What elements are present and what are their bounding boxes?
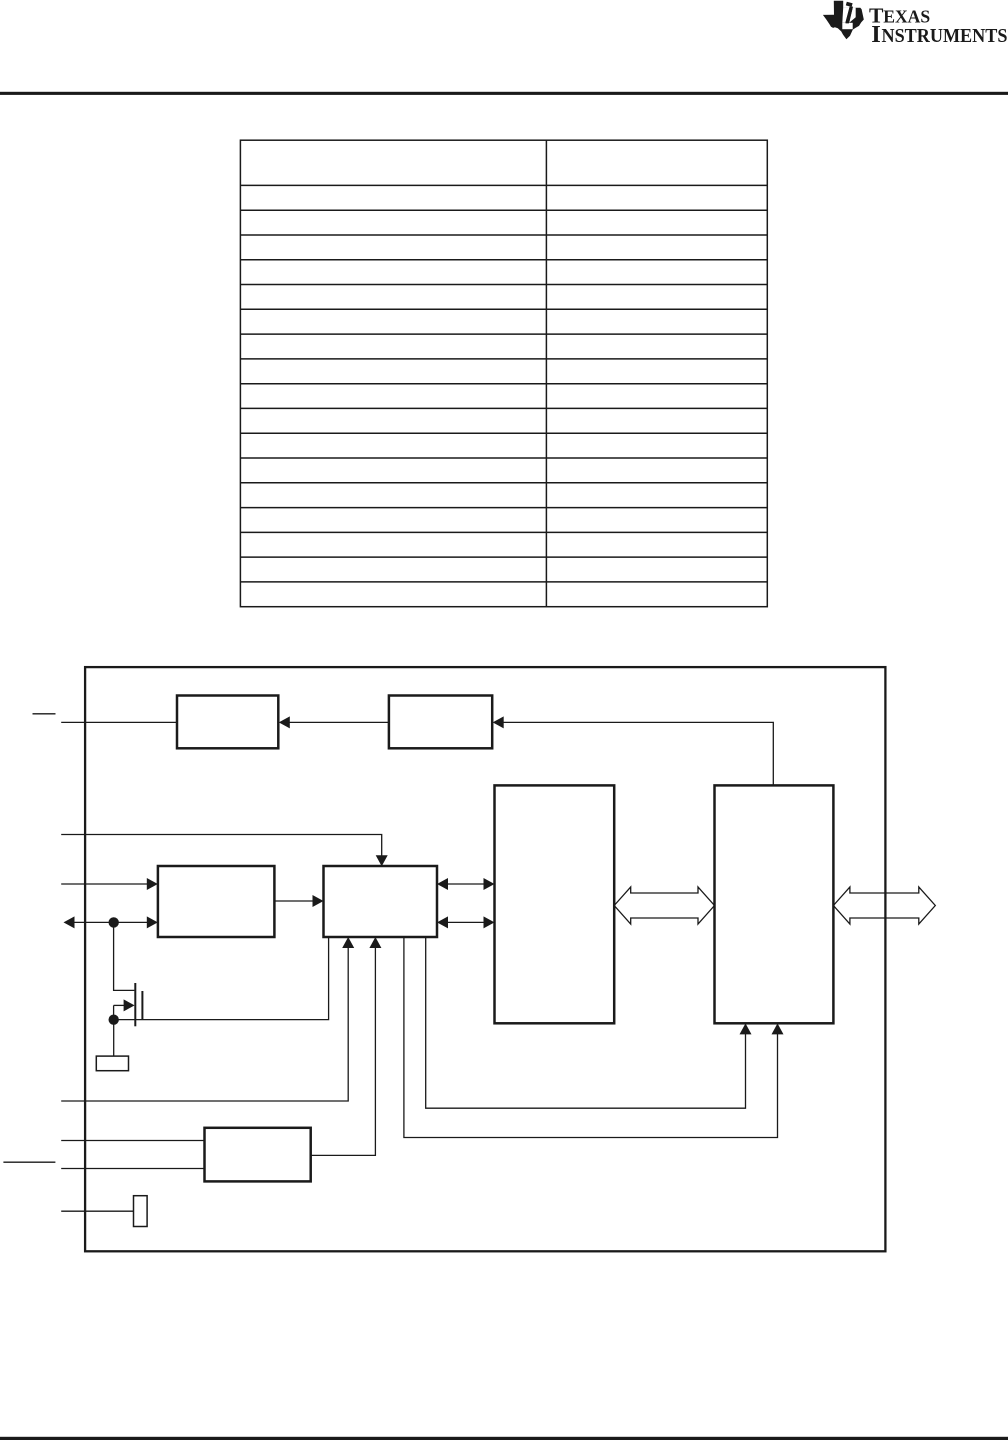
pin stub dash (top left) [33,713,56,715]
wire: from node under B6 to block B2 with arrowhead [503,722,774,785]
block B2 [389,696,492,749]
block B1 [177,696,278,749]
transistor Q1 [114,927,143,1026]
wire: left pin to pad box [61,1210,133,1212]
bottom rule [0,1437,1008,1440]
wire: transistor to block B4 bottom (gate drive) [114,937,329,1020]
svg-text:NSTRUMENTS: NSTRUMENTS [882,25,1008,47]
wire: left pin down into block B4 top with arrowhead [61,835,382,857]
pin stub dash (bottom left) [3,1161,55,1163]
wire: block B4 bottom to block B6 bottom (inner) with up arrowhead [426,937,746,1108]
resistor R1 [96,1056,128,1071]
empty pin-function table [240,140,767,607]
block B7 [205,1128,311,1182]
wire: block B7 up into block B4 bottom with up arrowhead [311,947,376,1155]
source junction node [109,1015,119,1025]
pad box [134,1196,148,1227]
wire: left pin to block B4 bottom with up arrowhead [61,947,348,1101]
wire: left pin into block B7 (upper) [61,1140,204,1142]
bidirectional wire B4-B5 lower [447,921,484,923]
wire: left pin into block B7 (lower) [61,1168,204,1170]
hollow double block arrow B6 to external bus [833,887,935,924]
hollow double block arrow B5-B6 [614,887,714,924]
svg-text:I: I [871,21,881,48]
block B3 [158,866,275,937]
bidirectional wire: left pin (I/O) into block B3, arrow out left [74,921,148,923]
wire: block B2 to block B1 with arrowhead [289,721,389,723]
block B6 (tall right) [715,785,834,1023]
wire: left pin into block B3 with arrowhead [61,883,148,885]
block B5 (tall center) [495,785,615,1023]
junction node on I/O wire [109,917,119,927]
TI wordmark TEXAS [869,4,1007,49]
header rule [0,92,1008,95]
wire: left pin into block B1 [61,721,177,723]
block diagram outer frame [85,667,885,1251]
svg-text:EXAS: EXAS [883,7,930,27]
bidirectional wire B4-B5 upper [447,883,484,885]
wire: source node down to resistor R1 [113,1020,115,1056]
TI logo Texas map bug [823,1,864,39]
block B4 [324,866,438,937]
wire: block B4 bottom to block B6 bottom (outer) with up arrowhead [404,937,778,1138]
wire: block B3 to block B4 with arrowhead [274,900,313,902]
